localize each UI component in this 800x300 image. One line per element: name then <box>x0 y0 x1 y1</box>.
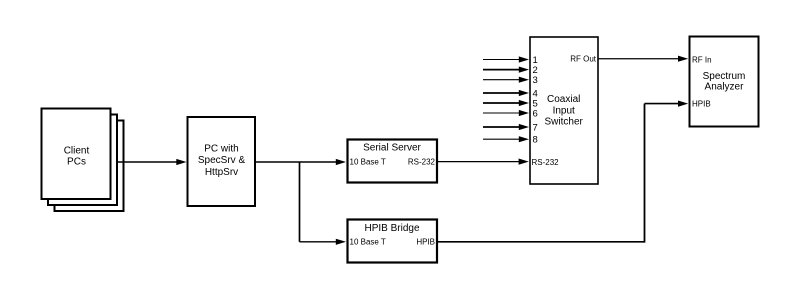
label PC with SpecSrv & HttpSrv <box>198 144 246 178</box>
pin number 3 <box>533 75 538 86</box>
client PCs stack middle sheet <box>48 115 117 206</box>
wire PC to junction <box>255 161 300 163</box>
label Coaxial Input Switcher <box>545 94 584 128</box>
HPIB bridge box <box>348 220 438 263</box>
svg-text:Analyzer: Analyzer <box>705 81 745 92</box>
serial server box <box>348 140 438 183</box>
arrowhead into serial server <box>336 159 346 165</box>
label Client PCs <box>64 145 90 167</box>
svg-text:PCs: PCs <box>67 157 86 168</box>
wire junction down <box>299 162 301 242</box>
svg-text:PC with: PC with <box>204 144 238 155</box>
coax input arrow 8 <box>483 136 529 142</box>
arrowhead HPIB into analyzer <box>678 101 688 107</box>
arrowhead RS-232 into switcher <box>519 159 529 165</box>
wire HPIB riser vertical <box>644 104 646 243</box>
svg-text:HPIB: HPIB <box>416 238 435 247</box>
svg-text:SpecSrv &: SpecSrv & <box>198 155 246 166</box>
svg-text:RF In: RF In <box>692 56 712 65</box>
svg-text:10 Base T: 10 Base T <box>350 238 386 247</box>
arrowhead into PC <box>176 159 186 165</box>
pin number 1 <box>533 55 538 66</box>
pin label RF Out <box>570 55 597 64</box>
svg-text:HPIB Bridge: HPIB Bridge <box>364 223 419 234</box>
coaxial input switcher box <box>530 37 598 184</box>
pin number 8 <box>533 135 538 146</box>
PC U1 box <box>188 117 256 206</box>
client PCs stack back sheet <box>55 121 124 212</box>
pin label 10BaseT bridge <box>350 238 386 247</box>
wire RF out to analyzer <box>598 58 680 60</box>
pin number 4 <box>533 89 538 100</box>
svg-text:Serial Server: Serial Server <box>363 142 421 153</box>
wire client PCs to PC <box>117 161 178 163</box>
pin label RS-232 switcher <box>532 158 560 167</box>
coax input arrow 6 <box>483 110 529 116</box>
svg-text:Input: Input <box>553 105 575 116</box>
svg-text:Coaxial: Coaxial <box>547 94 580 105</box>
pin number 6 <box>533 109 538 120</box>
svg-text:3: 3 <box>533 75 538 86</box>
arrowhead into HPIB bridge <box>336 239 346 245</box>
arrowhead RF into analyzer <box>678 56 688 62</box>
svg-text:HPIB: HPIB <box>692 100 711 109</box>
coax input arrow 3 <box>483 77 529 83</box>
svg-text:RS-232: RS-232 <box>408 158 436 167</box>
svg-text:7: 7 <box>533 123 538 134</box>
pin label RF In <box>692 56 712 65</box>
wire junction to serial server <box>300 161 338 163</box>
wire HPIB into analyzer <box>645 103 680 105</box>
client PCs stack front sheet <box>42 109 111 200</box>
svg-text:8: 8 <box>533 135 538 146</box>
svg-text:Spectrum: Spectrum <box>703 71 746 82</box>
pin number 5 <box>533 99 538 110</box>
svg-text:6: 6 <box>533 109 538 120</box>
wire HPIB bridge to analyzer horizontal <box>438 241 645 243</box>
pin label 10BaseT serial <box>350 158 386 167</box>
wire serial server RS-232 to switcher <box>438 161 521 163</box>
svg-text:10 Base T: 10 Base T <box>350 158 386 167</box>
svg-text:Switcher: Switcher <box>545 117 584 128</box>
coax input arrow 1 <box>483 56 529 62</box>
svg-text:HttpSrv: HttpSrv <box>205 167 238 178</box>
label Serial Server <box>363 142 421 153</box>
pin label HPIB bridge <box>416 238 435 247</box>
pin number 2 <box>533 65 538 76</box>
coax input arrow 2 <box>483 67 529 73</box>
coax input arrow 7 <box>483 124 529 130</box>
coax input arrow 5 <box>483 100 529 106</box>
pin number 7 <box>533 123 538 134</box>
pin label HPIB analyzer <box>692 100 711 109</box>
spectrum analyzer box <box>690 37 759 127</box>
label Spectrum Analyzer <box>703 71 746 92</box>
pin label RS-232 serial <box>408 158 436 167</box>
svg-text:RF Out: RF Out <box>570 55 597 64</box>
wire to HPIB bridge <box>300 241 338 243</box>
coax input arrow 4 <box>483 90 529 96</box>
svg-text:RS-232: RS-232 <box>532 158 560 167</box>
label HPIB Bridge <box>364 223 419 234</box>
svg-text:Client: Client <box>64 145 90 156</box>
